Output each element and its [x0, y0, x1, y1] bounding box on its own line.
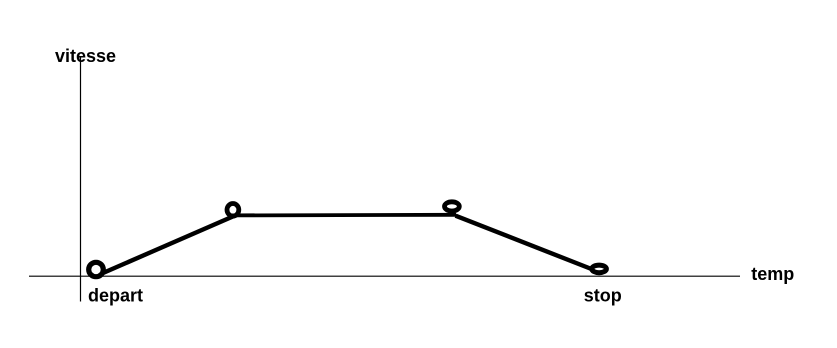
node plateau-right marker: [445, 202, 460, 211]
node depart marker: [89, 262, 104, 276]
svg-text:depart: depart: [88, 286, 143, 306]
wire plateau segment: [231, 213, 456, 217]
x-axis (temp): [29, 275, 740, 277]
node plateau-left marker: [227, 204, 239, 217]
svg-text:stop: stop: [584, 286, 622, 306]
svg-text:vitesse: vitesse: [55, 46, 116, 66]
wire acceleration segment: [103, 216, 234, 273]
y-axis (vitesse): [80, 56, 82, 302]
svg-text:temp: temp: [751, 264, 794, 284]
node stop marker: [592, 265, 607, 273]
wire deceleration segment: [456, 216, 595, 270]
